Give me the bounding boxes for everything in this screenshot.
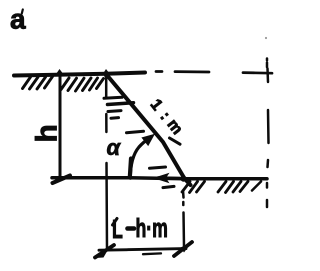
flag on L [113,219,118,226]
arc lower emphasis [130,159,131,178]
toe junction knot [181,176,187,182]
angle arc (alpha) [130,138,149,178]
h dimension arrow (top peak) [55,69,64,76]
equals bar [128,226,135,231]
ground surface line (top, solid) [14,73,145,76]
label L=h*m [112,215,123,244]
dimension tick left (slash arrow) [95,245,114,258]
svg-text:1: 1 [147,96,166,114]
svg-text:α: α [107,135,122,160]
a top spike [22,10,23,14]
h dimension arrow (bottom slash) [53,176,71,184]
ground hatching (left of h line) [23,77,53,90]
svg-text:m: m [163,116,185,138]
svg-text:h: h [31,124,64,142]
bottom dimension line L [99,249,186,251]
h dimension line (vertical) [59,74,62,180]
ground surface line (top, dashed continuation) [156,72,272,74]
small dash under dimension line [143,252,161,255]
ground hatching (right of h line) [61,78,104,91]
svg-text:h·m: h·m [136,214,168,243]
svg-text:a: a [10,4,26,35]
right extension line (dashed, from toe) [183,191,184,248]
crest junction knot [104,72,109,77]
pit bottom hatching group A [182,182,205,193]
label h&#183;m [136,214,168,243]
bottom level line (pit bottom + extension left) [52,178,267,179]
pit bottom hatching group B [218,182,248,193]
centerline faint dot above [265,37,267,39]
crest tick (peak) [103,69,110,74]
centerline (vertical dash-dot, right) [267,59,269,208]
dimension tick right (slash arrow) [174,242,192,256]
arc arrowhead [141,134,155,146]
slope line (1:m) [106,74,191,185]
pit bottom hatching at centerline [252,182,261,191]
stray stroke under m [170,138,181,144]
slope face shading strokes [104,97,122,98]
crest extension line (dashed vertical to dimension) [105,77,108,250]
arrow at toe (pointing left on bottom line) [158,176,180,180]
